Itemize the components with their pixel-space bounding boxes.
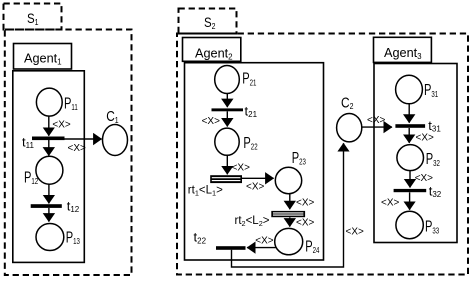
svg-text:<X>: <X> bbox=[416, 132, 434, 143]
svg-text:<X>: <X> bbox=[68, 143, 86, 154]
svg-text:<X>: <X> bbox=[381, 197, 399, 208]
svg-text:<X>: <X> bbox=[255, 235, 273, 246]
svg-text:<X>: <X> bbox=[367, 115, 385, 126]
svg-text:<X>: <X> bbox=[232, 162, 250, 173]
svg-text:Agent3: Agent3 bbox=[384, 46, 422, 61]
svg-text:<X>: <X> bbox=[296, 197, 314, 208]
svg-text:<X>: <X> bbox=[296, 217, 314, 228]
svg-text:Agent1: Agent1 bbox=[24, 52, 62, 67]
svg-text:Agent2: Agent2 bbox=[195, 47, 233, 62]
svg-text:<X>: <X> bbox=[246, 181, 264, 192]
svg-text:rt1<L1>: rt1<L1> bbox=[188, 185, 223, 198]
svg-text:<X>: <X> bbox=[52, 119, 70, 130]
svg-text:<X>: <X> bbox=[346, 226, 364, 237]
svg-text:rt2<L2>: rt2<L2> bbox=[235, 215, 270, 228]
svg-text:<X>: <X> bbox=[202, 116, 220, 127]
